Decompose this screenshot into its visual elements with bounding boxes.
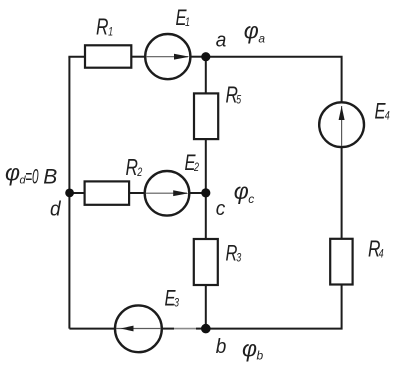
node b (201, 324, 211, 334)
svg-text:φc: φc (234, 178, 255, 206)
svg-text:E3: E3 (165, 286, 180, 311)
svg-text:R1: R1 (96, 15, 113, 40)
resistor R4 (330, 239, 352, 285)
svg-text:R2: R2 (126, 156, 143, 181)
wire top-left corner to resistor R1 (68, 56, 85, 58)
wire node a down to R5 (205, 56, 207, 94)
svg-text:R3: R3 (226, 241, 242, 266)
svg-text:φa: φa (244, 18, 266, 46)
node a (201, 52, 210, 61)
wire E3 to node b (faint middle section) (174, 328, 196, 330)
wire R1 to E1 (131, 56, 145, 58)
wire node a to top-right corner down to E4 (206, 57, 342, 103)
wire bottom-left corner to E3 (69, 328, 115, 330)
svg-text:E2: E2 (185, 151, 200, 176)
svg-text:a: a (216, 29, 227, 52)
svg-text:φd: φd (5, 160, 27, 187)
wire E3 to node b (162, 328, 174, 330)
wire E1 to node a (190, 56, 205, 58)
svg-text:=0: =0 (25, 165, 39, 188)
svg-text:В: В (43, 165, 57, 188)
EMF source E1 (145, 34, 190, 79)
svg-text:R5: R5 (226, 83, 242, 108)
svg-text:d: d (50, 198, 62, 221)
svg-text:R4: R4 (368, 237, 384, 262)
svg-text:b: b (216, 335, 227, 358)
EMF source E2 (145, 171, 190, 216)
svg-text:c: c (216, 198, 226, 221)
resistor R1 (85, 45, 131, 67)
wire E2 to node c (189, 192, 206, 194)
node c (201, 188, 210, 197)
resistor R3 (194, 239, 218, 285)
wire R5 to node c (205, 139, 207, 193)
wire node d to resistor R2 (69, 192, 85, 194)
node d (65, 189, 74, 198)
wire E4 to R4 (341, 147, 343, 239)
svg-text:E1: E1 (176, 6, 191, 31)
wire left rail (top-left corner down to bottom-left corner) (68, 57, 70, 329)
wire R4 down to bottom-right corner to node b (206, 285, 342, 329)
resistor R5 (194, 93, 218, 139)
svg-text:E4: E4 (375, 99, 390, 124)
EMF source E3 (115, 305, 162, 352)
EMF source E4 (319, 102, 364, 147)
svg-text:φb: φb (242, 336, 264, 363)
wire R3 to node b (205, 285, 207, 329)
resistor R2 (85, 181, 130, 204)
wire R2 to E2 (129, 192, 145, 194)
wire node c down to R3 (205, 193, 207, 239)
wire at node b (196, 328, 206, 330)
